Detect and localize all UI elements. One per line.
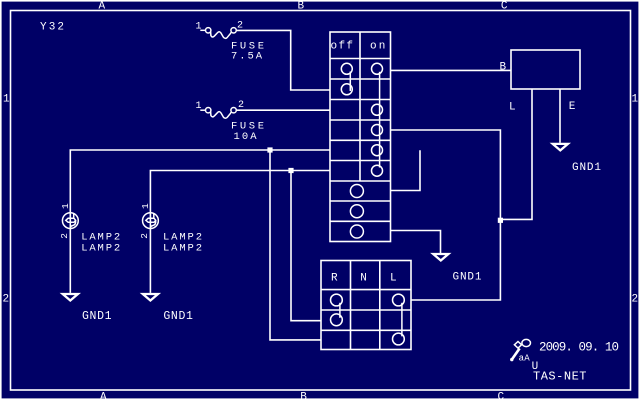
switch block SW1 outline [330, 32, 391, 242]
signature mark diamond [514, 342, 521, 349]
svg-text:10A: 10A [234, 131, 258, 143]
svg-text:E: E [569, 101, 576, 113]
svg-text:GND1: GND1 [453, 271, 482, 283]
svg-text:2: 2 [632, 294, 639, 306]
junction on row6 wire [288, 168, 293, 173]
alternator box U1 [511, 50, 580, 89]
svg-text:aA: aA [519, 353, 531, 363]
wire switch row1 to node B [391, 69, 512, 71]
wire switch row9 to ground [391, 231, 441, 254]
connector block X1 R N L outline [321, 261, 411, 350]
svg-text:N: N [360, 273, 367, 285]
junction on row5 wire [267, 147, 272, 152]
fuse F2 symbol [200, 108, 236, 119]
svg-text:GND1: GND1 [572, 162, 601, 174]
wire switch row4 to junction and down to RNL row1 [391, 130, 501, 300]
switch SW1 on column connector [379, 72, 381, 168]
wire lamp DS2 top feed to switch row6 [150, 171, 330, 229]
svg-text:2009. 09. 10: 2009. 09. 10 [539, 341, 619, 355]
ground GND1 at lamp DS2 [143, 294, 158, 301]
svg-text:L: L [390, 273, 397, 285]
svg-text:B: B [500, 61, 507, 73]
wire fuse F2 output to switch row3 [236, 109, 330, 111]
svg-text:C: C [498, 392, 505, 400]
svg-text:C: C [501, 1, 508, 13]
fuse F1 symbol [200, 28, 236, 39]
wire E pin down to ground [559, 89, 561, 143]
svg-text:LAMP2: LAMP2 [81, 243, 120, 255]
wire fuse F1 output to switch row2 [236, 30, 330, 90]
svg-text:LAMP2: LAMP2 [163, 243, 202, 255]
svg-text:TAS-NET: TAS-NET [533, 370, 587, 384]
wire junction down to RNL row3 [270, 150, 321, 340]
svg-text:7.5A: 7.5A [231, 51, 263, 63]
switch SW1 lower single contacts [350, 185, 363, 239]
svg-text:L: L [509, 102, 516, 114]
wire L pin down to junction [500, 89, 532, 219]
svg-text:2: 2 [59, 233, 70, 239]
wire switch row7 stub [391, 150, 421, 190]
svg-text:1: 1 [60, 203, 71, 209]
signature mark pen stroke [512, 348, 520, 360]
wire lamp DS1 top feed to switch row5 [70, 150, 330, 228]
svg-text:1: 1 [3, 94, 10, 106]
switch SW1 contact circles off column [341, 63, 352, 95]
lamp DS1 symbol [62, 213, 78, 229]
svg-text:Y32: Y32 [40, 22, 64, 34]
signature mark oval [522, 339, 531, 346]
svg-text:2: 2 [139, 233, 150, 239]
wire lamp DS1 to ground [69, 228, 71, 293]
svg-text:off: off [331, 41, 354, 53]
svg-text:B: B [300, 392, 307, 400]
connector X1 contact circles L column [393, 294, 405, 345]
svg-text:B: B [298, 1, 305, 13]
svg-text:GND1: GND1 [163, 310, 193, 323]
lamp DS2 symbol [143, 213, 159, 229]
svg-text:GND1: GND1 [82, 310, 112, 323]
connector X1 contact circles R column [331, 294, 343, 326]
wire junction down to RNL row2 [291, 171, 321, 321]
wire lamp DS2 to ground [149, 228, 151, 293]
ground GND1 at lamp DS1 [63, 294, 78, 301]
svg-text:A: A [99, 1, 106, 13]
ground GND1 at switch row9 [433, 254, 448, 261]
switch SW1 contact circles on column [372, 63, 383, 176]
ground GND1 at E pin [553, 144, 568, 151]
connector X1 R column connector line [339, 303, 341, 318]
switch SW1 off column connector [349, 72, 351, 92]
junction at L wire and main vertical [498, 218, 503, 223]
svg-text:R: R [331, 273, 338, 285]
svg-text:LAMP2: LAMP2 [163, 231, 202, 243]
svg-text:LAMP2: LAMP2 [81, 231, 120, 243]
svg-text:2: 2 [3, 294, 10, 306]
svg-text:A: A [100, 392, 107, 400]
svg-text:1: 1 [632, 94, 639, 106]
connector X1 L column connector line [401, 303, 403, 337]
svg-text:1: 1 [140, 203, 151, 209]
